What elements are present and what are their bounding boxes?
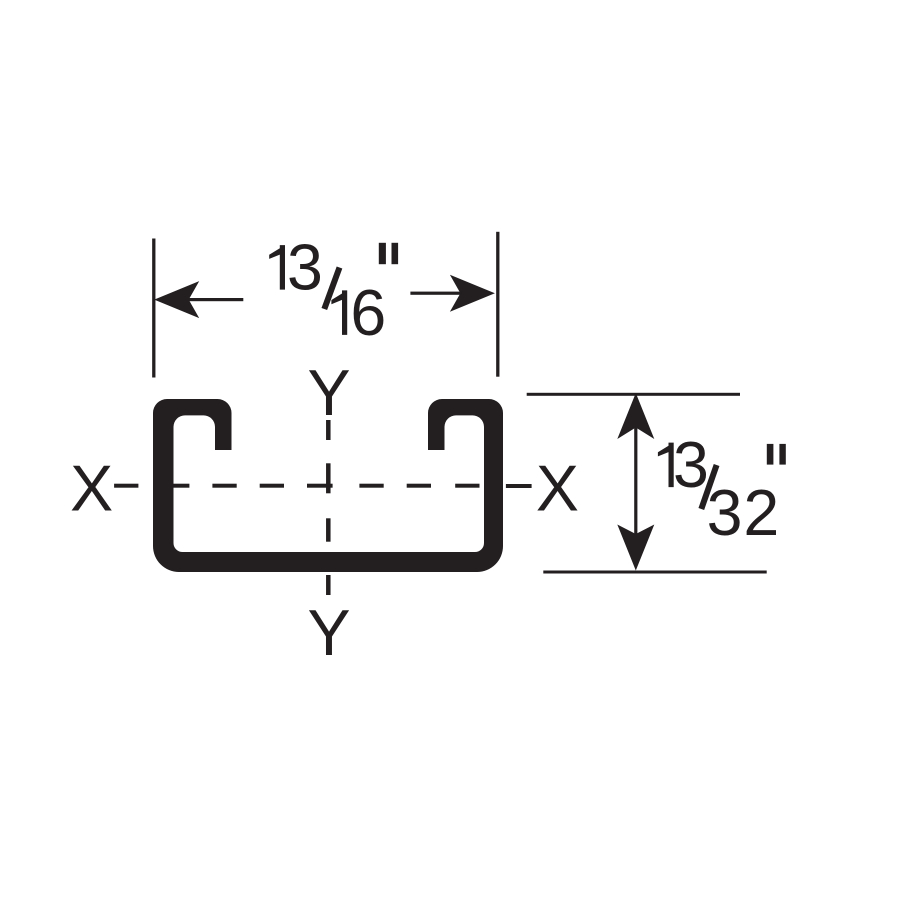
svg-text:3: 3 bbox=[707, 477, 743, 549]
svg-text:X: X bbox=[536, 453, 579, 525]
svg-text:3: 3 bbox=[287, 232, 323, 304]
svg-text:6: 6 bbox=[350, 277, 386, 349]
svg-text:3: 3 bbox=[673, 429, 709, 501]
svg-text:Y: Y bbox=[307, 597, 350, 669]
svg-text:X: X bbox=[70, 453, 113, 525]
svg-text:Y: Y bbox=[307, 357, 350, 429]
svg-text:2: 2 bbox=[743, 477, 779, 549]
